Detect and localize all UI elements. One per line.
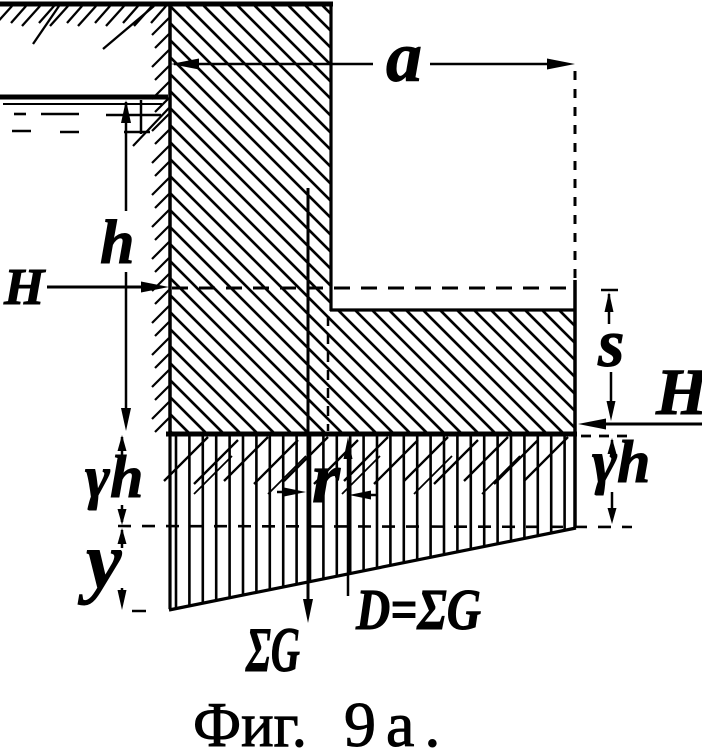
- D up arrow: [344, 437, 353, 459]
- reaction D action line: [347, 452, 350, 596]
- s bottom shaft: [610, 372, 613, 402]
- svg-text:H: H: [655, 356, 702, 429]
- pressure diagram bottom edge: [169, 528, 576, 610]
- water secondary line: [3, 103, 162, 105]
- wall face hatch ticks: [133, 18, 169, 432]
- svg-text:γh: γh: [85, 444, 143, 510]
- gamma-h right bottom arrow: [611, 492, 614, 512]
- y top arrow: [118, 528, 127, 544]
- svg-text:9а.: 9а.: [344, 689, 450, 754]
- dimension a right arrow: [547, 59, 575, 70]
- h top arrow: [121, 100, 131, 123]
- dimension h line: [125, 102, 128, 211]
- dimension a line: [174, 63, 373, 66]
- h tick at waterline: [124, 131, 150, 134]
- H right force line: [598, 423, 702, 426]
- svg-text:y: y: [77, 518, 122, 606]
- water dashes: [12, 114, 161, 132]
- dashed vertical reference line: [574, 71, 577, 278]
- dashed gamma-h depth level line: [118, 526, 632, 527]
- resultant sum-G action line: [307, 188, 310, 602]
- svg-text:h: h: [100, 209, 134, 277]
- y bottom tick: [132, 610, 146, 613]
- sum-G arrow: [303, 599, 313, 623]
- base slab top edge: [330, 308, 576, 311]
- s bottom arrow: [607, 401, 616, 421]
- s top tick: [601, 289, 618, 292]
- svg-text:Фиг.: Фиг.: [193, 689, 307, 754]
- s top arrow: [605, 292, 614, 312]
- pressure diagram left edge: [168, 434, 171, 609]
- pressure diagram diagonal strokes: [164, 437, 568, 494]
- svg-text:γh: γh: [592, 429, 650, 495]
- pressure diagram vertical hatching: [176, 434, 565, 612]
- ground surface and wall top edge: [0, 2, 333, 7]
- r left arrow: [277, 491, 288, 494]
- wall left face: [168, 3, 172, 434]
- horizontal dashed center line: [172, 287, 574, 290]
- svg-text:s: s: [597, 305, 624, 381]
- dimension a left arrow: [171, 59, 199, 70]
- ground hatch ticks: [0, 6, 166, 49]
- svg-text:H: H: [3, 259, 46, 316]
- foundation base line: [166, 432, 577, 437]
- svg-text:ΣG: ΣG: [245, 614, 300, 685]
- r right arrow: [349, 491, 371, 500]
- svg-text:a: a: [386, 17, 422, 97]
- H left force line: [47, 286, 145, 289]
- wall stem right edge: [329, 4, 332, 311]
- h bottom arrow: [121, 408, 131, 431]
- waterline squiggle at wall: [140, 100, 143, 134]
- H left arrow: [141, 282, 169, 293]
- dashed base level extension right: [581, 435, 632, 438]
- water surface line: [0, 95, 168, 100]
- gamma-h left bottom arrow: [121, 505, 124, 522]
- right edge of base and pressure diagram: [573, 280, 577, 528]
- svg-text:D=ΣG: D=ΣG: [355, 577, 481, 642]
- hidden stem edge (dashed): [327, 316, 330, 431]
- wall body hatching: [0, 0, 702, 440]
- svg-text:r: r: [312, 438, 341, 518]
- H right arrow: [578, 419, 606, 430]
- y bottom arrow: [121, 588, 124, 598]
- gamma-h right top arrow: [608, 438, 617, 454]
- gamma-h left top arrow: [118, 435, 127, 451]
